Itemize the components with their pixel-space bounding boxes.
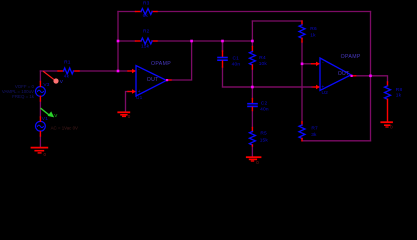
svg-text:+: + [138,89,141,95]
svg-text:R2: R2 [143,29,150,35]
U2 plus input wire from node 87 [223,86,313,88]
svg-text:AC = 1Vac 0V: AC = 1Vac 0V [51,126,78,131]
resistor R1 leads [58,70,79,72]
svg-text:-: - [138,67,140,73]
svg-text:15k: 15k [260,138,269,144]
wire V1 to ground [39,136,41,147]
svg-text:3k: 3k [311,132,317,138]
wire top feedback horizontal y=11.5 [118,11,371,13]
svg-text:1k: 1k [396,92,402,98]
voltage marker probe (red V) [44,72,64,85]
svg-text:R4: R4 [259,55,266,61]
junction R4 top [251,40,254,43]
resistor R3 body [141,9,152,15]
svg-text:15k: 15k [141,44,150,50]
resistor R8 vertical [385,82,403,121]
ground G3 bottom middle [247,157,261,165]
ground G1 under sources [32,148,48,157]
capacitor C2 [248,87,269,112]
svg-text:1k: 1k [310,33,316,39]
junction at input node and R1 wire [117,70,120,73]
svg-text:R7: R7 [311,125,318,131]
voltage source V1 AC [36,116,79,136]
svg-text:40n: 40n [260,106,269,112]
junction U2 inverting input node [301,63,304,66]
wire U1 plus to ground G2 [126,92,129,112]
wire node to R6 top [252,20,302,22]
resistor R6 vertical [299,21,317,42]
resistor R2 leads [136,40,158,42]
junction at input node and R2 wire [117,40,120,43]
svg-text:6k: 6k [143,13,149,19]
wire C2 to R5 [251,111,253,128]
svg-text:C2: C2 [261,101,268,107]
svg-text:R1: R1 [64,59,71,65]
resistor R2 body [141,38,152,44]
svg-text:40n: 40n [232,61,241,67]
wire R4 branch verticals [251,21,253,87]
wire between sources [39,101,41,117]
svg-text:R3: R3 [143,1,150,7]
resistor R7 vertical [299,122,318,141]
wire right vertical x=370.5 [370,12,372,141]
resistor R1 body [64,68,74,74]
ground G4 under R8 [381,122,393,129]
svg-text:R5: R5 [260,131,267,137]
svg-text:U1: U1 [136,95,143,101]
wire R6 bottom to R7 top through U2 minus node [301,42,303,122]
voltage source V3 sine [36,82,50,102]
svg-text:C1: C1 [233,55,240,61]
V3 parameter text [2,84,35,99]
svg-text:+: + [321,84,324,90]
svg-text:10k: 10k [259,61,268,67]
junction U2 output node [369,75,372,78]
wire left vertical x=118 [117,12,119,72]
junction U1 output branch on R2 wire [190,40,193,43]
wire U1 output up to node [171,41,192,80]
svg-text:-: - [322,60,324,66]
ground G2 under U1 plus input [118,112,131,119]
svg-text:U2: U2 [322,90,329,96]
op-amp U1 [128,61,171,101]
resistor R5 vertical [249,128,268,147]
vdb marker probe (green arrow) [41,109,58,119]
junction C1 top [221,40,224,43]
wire U2 output to R8 corner [356,76,388,82]
wire input node to R1 and U1 [40,71,128,82]
capacitor C1 [218,41,240,67]
svg-text:V1: V1 [42,116,48,122]
resistor R4 vertical [249,47,267,70]
svg-text:V3: V3 [43,82,49,88]
svg-text:OUT: OUT [147,77,159,83]
resistor R3 leads [136,11,158,13]
junction R4 bottom / C2 top node [251,86,254,89]
svg-text:R8: R8 [396,87,403,93]
wire C1 branch [223,41,313,87]
svg-text:OPAMP: OPAMP [151,61,171,67]
wire R7 bottom to right vertical [302,140,371,142]
wire U2 minus stub wire [302,63,312,65]
svg-text:OUT: OUT [338,71,350,77]
op-amp U2 [312,54,361,96]
svg-text:R6: R6 [310,26,317,32]
svg-text:OPAMP: OPAMP [341,54,361,60]
wire second horizontal y=41 [118,40,252,42]
svg-text:FREQ = 1k: FREQ = 1k [12,94,35,99]
wire R5 to ground G3 [251,146,253,157]
svg-text:4k: 4k [64,74,70,80]
